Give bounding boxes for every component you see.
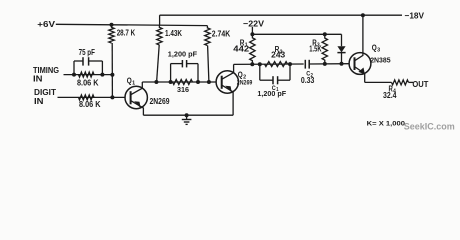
junction dot C1 left <box>258 62 262 66</box>
wire R4 to OUT <box>409 81 414 83</box>
wire riser 1.43K top to -18V rail <box>159 15 161 25</box>
capacitor 1200pF bracket left <box>170 64 172 82</box>
svg-text:8.06 K: 8.06 K <box>77 77 99 87</box>
svg-text:1,200 pF: 1,200 pF <box>168 50 198 59</box>
svg-text:2N385: 2N385 <box>370 55 390 64</box>
resistor 28.7K <box>109 25 114 43</box>
transistor Q3 base bar <box>354 57 356 70</box>
junction dot Q1 base node <box>110 95 114 99</box>
transistor Q1 collector stroke <box>131 82 143 95</box>
capacitor C2 plate right <box>308 60 310 69</box>
transistor Q3 circle <box>349 53 371 75</box>
junction dot R3 bottom <box>323 62 327 66</box>
wire ground rail <box>143 114 233 116</box>
transistor Q2 collector stroke <box>222 64 234 79</box>
junction dot C1 right <box>288 62 292 66</box>
junction dot 316 left <box>169 80 173 84</box>
junction dot diode bottom <box>340 62 344 66</box>
ground bar 3 <box>186 123 188 125</box>
wire -22V rail <box>252 33 341 35</box>
transistor Q2 base bar <box>221 76 223 89</box>
resistor R4 32.4 <box>392 80 409 85</box>
resistor 8.06K (timing) <box>79 72 95 77</box>
svg-text:OUT: OUT <box>412 79 429 89</box>
wire -18V top rail <box>160 14 402 16</box>
capacitor 75pF top right arm <box>89 60 103 62</box>
wire digit in <box>58 96 126 98</box>
wire Q2 collector to Q3 base <box>234 63 304 65</box>
transistor Q1 circle <box>125 86 147 108</box>
svg-text:2.74K: 2.74K <box>212 29 230 39</box>
resistor R3 1.5K <box>322 34 327 64</box>
svg-text:243: 243 <box>271 50 285 60</box>
junction dot timing/28.7K <box>110 73 114 77</box>
wire C2 to R3 node <box>309 63 349 65</box>
svg-text:Q: Q <box>127 76 132 85</box>
junction dot R3 top <box>323 32 327 36</box>
transistor Q1 base bar <box>130 91 132 104</box>
transistor Q2 circle <box>216 71 238 93</box>
capacitor C1 bottom left arm <box>260 79 273 81</box>
wire 2.74K bottom <box>208 46 209 83</box>
svg-text:28.7 K: 28.7 K <box>117 28 136 38</box>
svg-text:+6V: +6V <box>37 19 55 29</box>
transistor Q2 emitter stroke <box>222 85 233 115</box>
resistor 1.43K <box>157 25 162 45</box>
capacitor C2 plate left <box>304 60 306 69</box>
resistor 316 <box>173 80 193 85</box>
svg-text:IN: IN <box>34 96 44 106</box>
wire +6V rail <box>56 24 208 25</box>
resistor R2 243 <box>265 62 288 67</box>
capacitor 75pF plate right <box>88 57 90 65</box>
capacitor C1 plate left <box>272 76 274 84</box>
transistor Q3 collector stroke <box>355 15 363 61</box>
wire 28.7K bottom to digit node <box>111 43 113 97</box>
svg-text:316: 316 <box>177 85 189 94</box>
capacitor 1200pF bracket right <box>197 64 199 82</box>
transistor Q2 emitter arrow (PNP) <box>225 86 232 93</box>
svg-text:IN: IN <box>33 74 43 84</box>
junction dot -22V node <box>250 32 254 36</box>
svg-text:32.4: 32.4 <box>383 90 397 100</box>
capacitor 1200pF plate right <box>186 60 188 67</box>
transistor Q1 emitter arrow (PNP) <box>134 101 141 108</box>
svg-text:1.5K: 1.5K <box>309 43 321 53</box>
diode CR1 triangle <box>337 46 345 52</box>
wire Q1 collector rail <box>142 81 216 83</box>
svg-text:Q: Q <box>372 43 377 52</box>
diode CR1 cathode bar <box>337 52 345 54</box>
junction dot R1 bottom <box>250 62 254 66</box>
capacitor 1200pF top left arm <box>171 63 183 65</box>
capacitor C1 plate right <box>277 76 279 84</box>
svg-text:SeekIC.com: SeekIC.com <box>404 121 455 131</box>
capacitor C1 bracket left <box>259 64 261 80</box>
capacitor 1200pF top right arm <box>187 63 198 65</box>
wire diode top corner <box>341 34 343 46</box>
ground bar 1 <box>182 119 192 121</box>
junction dot 1.43K bottom <box>154 80 158 84</box>
capacitor 75pF plate left <box>82 57 84 65</box>
ground bar 2 <box>184 121 190 123</box>
svg-text:1.43K: 1.43K <box>165 28 182 38</box>
resistor 2.74K <box>205 26 210 46</box>
svg-text:−18V: −18V <box>405 10 425 20</box>
svg-text:0.33: 0.33 <box>301 75 315 85</box>
capacitor C1 bottom right arm <box>278 79 290 81</box>
transistor Q3 emitter stroke <box>355 67 365 83</box>
resistor R1 442 <box>250 34 255 64</box>
junction dot timing/cap-left <box>72 73 76 77</box>
wire Q3 emitter to R4 <box>365 81 392 83</box>
junction dot ground <box>185 113 189 117</box>
svg-text:K= X 1,000: K= X 1,000 <box>367 120 406 127</box>
junction dot +6V / 28.7K top <box>110 23 114 27</box>
svg-text:8.06 K: 8.06 K <box>79 99 101 109</box>
wire -22V stub <box>251 27 253 34</box>
junction dot timing/cap-right <box>100 73 104 77</box>
wire 1.43K bottom <box>157 45 160 82</box>
capacitor 75pF top left arm <box>74 60 83 62</box>
capacitor 1200pF plate left <box>181 60 183 67</box>
wire diode bottom <box>341 53 343 64</box>
capacitor 75pF bracket right <box>101 61 103 75</box>
junction dot 2.74K bottom <box>207 80 211 84</box>
resistor 8.06K (digit) <box>79 95 95 100</box>
svg-text:−22V: −22V <box>243 18 264 28</box>
svg-text:75 pF: 75 pF <box>79 47 95 57</box>
transistor Q1 emitter stroke <box>131 101 144 116</box>
svg-text:442: 442 <box>233 43 249 53</box>
svg-text:2N269: 2N269 <box>150 96 170 106</box>
svg-text:2N269: 2N269 <box>237 80 253 87</box>
junction dot -18V rail / Q3 collector <box>361 13 365 17</box>
junction dot 316 right <box>196 80 200 84</box>
capacitor 75pF bracket left <box>73 61 75 75</box>
ground stem <box>186 115 188 119</box>
svg-text:Q: Q <box>238 70 243 79</box>
wire timing in <box>64 74 113 76</box>
svg-text:1,200 pF: 1,200 pF <box>257 89 286 98</box>
capacitor C1 bracket right <box>289 64 291 80</box>
transistor Q3 emitter arrow (NPN) <box>358 68 365 75</box>
